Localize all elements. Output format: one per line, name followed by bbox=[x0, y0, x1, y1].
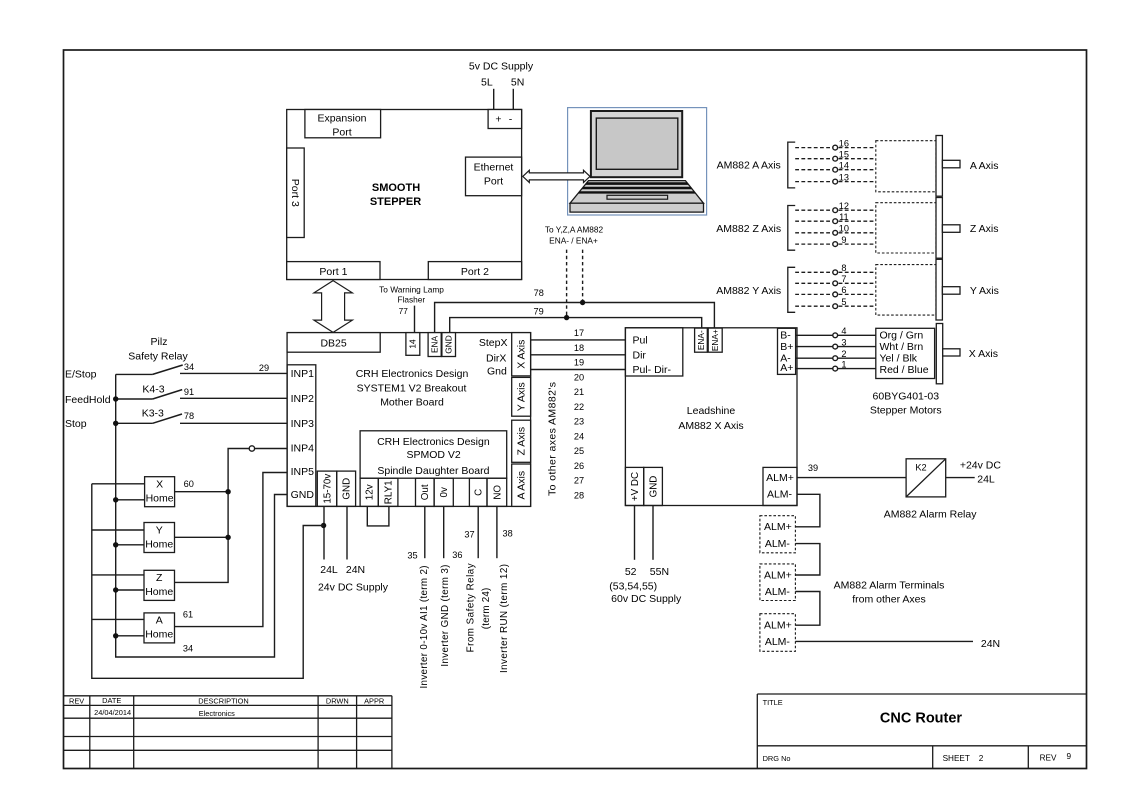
wire block1 to block2 bbox=[795, 544, 820, 575]
node feedhold bbox=[113, 396, 118, 401]
svg-text:ENA: ENA bbox=[430, 336, 440, 354]
Y home switch bbox=[144, 523, 175, 553]
svg-text:K3-3: K3-3 bbox=[142, 407, 164, 419]
svg-text:A Axis: A Axis bbox=[970, 160, 999, 172]
svg-text:NO: NO bbox=[492, 485, 503, 500]
svg-text:+V DC: +V DC bbox=[630, 472, 641, 501]
pul dir terminal block bbox=[625, 328, 682, 376]
INP4 NC contact circle bbox=[249, 446, 254, 451]
svg-text:ALM+: ALM+ bbox=[766, 472, 794, 484]
X axis port bbox=[512, 333, 531, 376]
wire 36 0v bbox=[443, 506, 445, 558]
X motor wire colour box bbox=[876, 328, 935, 378]
svg-text:Port: Port bbox=[332, 126, 351, 138]
StepX DirX Gnd labels bbox=[479, 337, 508, 378]
svg-text:14: 14 bbox=[408, 339, 418, 349]
svg-text:61: 61 bbox=[183, 609, 193, 619]
svg-text:37: 37 bbox=[464, 529, 474, 539]
svg-text:ALM-: ALM- bbox=[765, 586, 791, 598]
svg-text:K2: K2 bbox=[915, 463, 926, 473]
svg-text:B-: B- bbox=[780, 330, 791, 342]
port 2 bbox=[428, 262, 521, 280]
svg-text:Inverter 0-10v AI1 (term 2): Inverter 0-10v AI1 (term 2) bbox=[419, 566, 430, 689]
wire 60 X home out bbox=[175, 491, 229, 493]
ethernet port bbox=[466, 157, 522, 196]
svg-text:Mother Board: Mother Board bbox=[380, 397, 444, 409]
wire gnd 19 bbox=[531, 369, 626, 371]
svg-text:X Axis: X Axis bbox=[969, 348, 998, 360]
svg-text:DATE: DATE bbox=[102, 696, 121, 705]
X axis phase terminal block bbox=[778, 328, 796, 374]
wire ALM X to block1 bbox=[795, 494, 820, 527]
wire 5L bbox=[493, 89, 495, 110]
svg-text:6: 6 bbox=[841, 285, 846, 295]
svg-text:Stepper Motors: Stepper Motors bbox=[870, 404, 942, 416]
wire 37 C bbox=[477, 506, 479, 558]
switch feedhold bbox=[116, 390, 287, 399]
alarm terminal block 2 bbox=[760, 564, 796, 601]
svg-text:39: 39 bbox=[808, 463, 818, 473]
svg-text:26: 26 bbox=[574, 461, 584, 471]
wire block2 to block3 bbox=[795, 592, 820, 626]
A home switch bbox=[144, 613, 175, 643]
leadshine AM882 X axis driver U5 bbox=[625, 328, 797, 506]
svg-text:REV: REV bbox=[69, 696, 84, 705]
svg-text:STEPPER: STEPPER bbox=[370, 196, 421, 208]
wire Z home out to INP4 bbox=[175, 449, 250, 583]
smooth stepper board U2 bbox=[287, 110, 522, 280]
terminal ENA- bbox=[695, 328, 708, 352]
bracket Y axis bbox=[788, 267, 795, 312]
svg-text:SMOOTH: SMOOTH bbox=[372, 182, 420, 194]
svg-text:To Y,Z,A AM882: To Y,Z,A AM882 bbox=[545, 225, 604, 235]
X home switch bbox=[145, 477, 175, 507]
svg-text:24v DC Supply: 24v DC Supply bbox=[318, 582, 389, 594]
wire rly loop bbox=[367, 506, 389, 526]
24v supply labels bbox=[318, 564, 389, 594]
svg-text:Y: Y bbox=[156, 524, 163, 536]
svg-text:Out: Out bbox=[420, 484, 431, 500]
svg-text:GND: GND bbox=[342, 478, 353, 500]
svg-text:2: 2 bbox=[841, 349, 846, 359]
svg-text:INP3: INP3 bbox=[291, 418, 315, 430]
bracket A axis bbox=[788, 142, 795, 188]
svg-text:ALM+: ALM+ bbox=[764, 569, 792, 581]
svg-text:4: 4 bbox=[841, 326, 846, 336]
svg-text:INP5: INP5 bbox=[291, 466, 315, 478]
svg-text:3: 3 bbox=[841, 337, 846, 347]
svg-text:5L: 5L bbox=[481, 77, 493, 89]
svg-text:X Axis: X Axis bbox=[516, 340, 528, 369]
spindle daughter board U4 bbox=[360, 431, 507, 478]
dashed ENA+ line bbox=[582, 250, 584, 303]
svg-text:C: C bbox=[474, 489, 485, 496]
svg-text:Gnd: Gnd bbox=[487, 365, 507, 377]
svg-text:10: 10 bbox=[839, 224, 849, 234]
svg-text:91: 91 bbox=[184, 387, 194, 397]
svg-text:24/04/2014: 24/04/2014 bbox=[94, 708, 131, 717]
svg-text:AM882 Alarm Relay: AM882 Alarm Relay bbox=[884, 509, 978, 521]
wire GND 55N bbox=[652, 506, 654, 560]
terminal NO bbox=[487, 478, 507, 506]
A axis port bbox=[512, 464, 531, 506]
bracket Z axis bbox=[788, 206, 795, 251]
+24v DC labels bbox=[960, 459, 1002, 485]
wire 39 to K2 bbox=[797, 477, 906, 479]
svg-text:13: 13 bbox=[839, 172, 849, 182]
svg-text:29: 29 bbox=[259, 363, 269, 373]
svg-text:1: 1 bbox=[841, 359, 846, 369]
svg-text:-: - bbox=[509, 114, 513, 126]
terminal C bbox=[469, 478, 487, 506]
svg-text:15-70v: 15-70v bbox=[322, 474, 333, 504]
svg-text:0v: 0v bbox=[439, 487, 450, 497]
wire 5N bbox=[512, 89, 514, 110]
wire 77 bbox=[414, 306, 416, 333]
svg-text:24: 24 bbox=[574, 431, 584, 441]
svg-text:CRH Electronics Design: CRH Electronics Design bbox=[377, 436, 490, 448]
svg-text:Port 2: Port 2 bbox=[461, 266, 489, 278]
svg-text:DESCRIPTION: DESCRIPTION bbox=[198, 696, 249, 705]
svg-text:AM882 X Axis: AM882 X Axis bbox=[678, 420, 743, 432]
svg-text:55N: 55N bbox=[650, 566, 669, 578]
svg-text:Red / Blue: Red / Blue bbox=[880, 364, 929, 376]
svg-text:GND: GND bbox=[291, 489, 315, 501]
branch to A home top bbox=[92, 618, 144, 620]
terminal 0v bbox=[434, 478, 453, 506]
svg-text:78: 78 bbox=[534, 288, 544, 298]
revision table bbox=[64, 696, 392, 769]
svg-text:5: 5 bbox=[841, 297, 846, 307]
terminal RLY1 bbox=[378, 478, 398, 506]
terminal 14 bbox=[406, 333, 420, 356]
svg-text:Pul: Pul bbox=[633, 334, 648, 346]
svg-text:Home: Home bbox=[145, 586, 173, 598]
stepper motors label bbox=[870, 390, 942, 416]
svg-text:24N: 24N bbox=[981, 638, 1000, 650]
5v DC supply labels bbox=[469, 61, 534, 89]
svg-text:60v DC Supply: 60v DC Supply bbox=[611, 593, 682, 605]
terminal GND power bbox=[337, 471, 356, 506]
svg-text:+: + bbox=[495, 114, 501, 126]
wire 78 bbox=[435, 303, 715, 333]
svg-text:12: 12 bbox=[839, 201, 849, 211]
DB25 connector bbox=[287, 333, 380, 353]
svg-text:From Safety Relay: From Safety Relay bbox=[466, 563, 477, 652]
svg-text:A: A bbox=[156, 615, 163, 627]
stepper motor X bbox=[936, 324, 960, 384]
branch to X home bottom bbox=[116, 499, 145, 501]
terminal 12v bbox=[360, 478, 378, 506]
svg-text:A+: A+ bbox=[780, 362, 793, 374]
svg-text:Z Axis: Z Axis bbox=[970, 223, 999, 235]
svg-text:GND: GND bbox=[648, 476, 659, 498]
svg-text:Home: Home bbox=[146, 493, 174, 505]
svg-text:60: 60 bbox=[184, 479, 194, 489]
stepper motor Y bbox=[876, 259, 960, 320]
svg-text:34: 34 bbox=[184, 362, 194, 372]
branch to A home bottom bbox=[116, 635, 144, 637]
wire 61 A home to INP5 bbox=[175, 473, 288, 627]
svg-text:2: 2 bbox=[979, 754, 984, 763]
svg-text:35: 35 bbox=[407, 551, 417, 561]
branch to Z home bottom bbox=[116, 589, 144, 591]
wire +VDC 52 bbox=[634, 506, 636, 560]
wire dirx 18 bbox=[531, 354, 626, 356]
left bus wire to 24L junction bbox=[92, 484, 324, 679]
svg-text:24N: 24N bbox=[346, 564, 365, 576]
terminal GND bbox=[442, 333, 456, 357]
svg-text:K4-3: K4-3 bbox=[142, 383, 164, 395]
svg-text:REV: REV bbox=[1040, 753, 1057, 762]
terminal Out bbox=[416, 478, 435, 506]
alarm terminal block 3 bbox=[760, 614, 796, 652]
wire 35 out bbox=[424, 506, 426, 558]
stepper motor Z bbox=[876, 198, 960, 259]
svg-text:CRH Electronics Design: CRH Electronics Design bbox=[356, 368, 469, 380]
svg-text:RLY1: RLY1 bbox=[384, 480, 395, 504]
svg-text:DB25: DB25 bbox=[320, 337, 346, 349]
node on wire 78 bbox=[580, 300, 585, 305]
wire 38 NO bbox=[496, 506, 498, 558]
svg-text:from other Axes: from other Axes bbox=[852, 593, 926, 605]
svg-text:38: 38 bbox=[502, 529, 512, 539]
svg-text:AM882 Alarm Terminals: AM882 Alarm Terminals bbox=[834, 579, 945, 591]
svg-text:Safety Relay: Safety Relay bbox=[128, 350, 188, 362]
svg-text:(term 24): (term 24) bbox=[481, 588, 492, 630]
svg-text:A Axis: A Axis bbox=[516, 471, 528, 500]
svg-text:DRG No: DRG No bbox=[763, 754, 791, 763]
branch to Y home top bbox=[92, 529, 144, 531]
terminal 15-70v bbox=[317, 471, 336, 506]
svg-text:15: 15 bbox=[839, 150, 849, 160]
svg-text:22: 22 bbox=[574, 402, 584, 412]
svg-text:24L: 24L bbox=[977, 474, 995, 486]
Z axis pin wires 12-9 bbox=[795, 201, 876, 247]
svg-text:Z Axis: Z Axis bbox=[516, 427, 528, 456]
svg-text:ALM+: ALM+ bbox=[764, 620, 792, 632]
svg-text:ENA+: ENA+ bbox=[710, 329, 720, 351]
terminal ENA+ bbox=[708, 328, 722, 352]
pilz safety relay label bbox=[128, 336, 188, 362]
terminal +VDC bbox=[625, 467, 643, 505]
Y axis port bbox=[512, 377, 531, 416]
svg-text:17: 17 bbox=[574, 328, 584, 338]
svg-text:ENA-: ENA- bbox=[696, 330, 706, 350]
svg-text:25: 25 bbox=[574, 446, 584, 456]
svg-text:Pul- Dir-: Pul- Dir- bbox=[633, 364, 672, 376]
svg-text:Z: Z bbox=[156, 572, 163, 584]
wire into INP4 bbox=[255, 448, 287, 450]
svg-text:Org / Grn: Org / Grn bbox=[880, 330, 924, 342]
to warning lamp flasher label bbox=[379, 285, 444, 317]
svg-text:19: 19 bbox=[574, 358, 584, 368]
svg-text:GND: GND bbox=[444, 335, 454, 353]
node stop bbox=[113, 421, 118, 426]
svg-text:ALM-: ALM- bbox=[765, 538, 791, 550]
svg-text:Port 3: Port 3 bbox=[289, 179, 301, 207]
svg-text:77: 77 bbox=[399, 306, 409, 316]
svg-text:Spindle Daughter Board: Spindle Daughter Board bbox=[377, 465, 489, 477]
node Y home junction bbox=[225, 535, 230, 540]
breakout mother board U3 bbox=[287, 333, 530, 507]
switch estop bbox=[116, 365, 287, 374]
wire K2 to 24L bbox=[946, 477, 975, 479]
svg-text:INP4: INP4 bbox=[291, 443, 315, 455]
wire stepx 17 bbox=[531, 339, 626, 341]
double arrow ethernet to laptop bbox=[523, 170, 590, 182]
terminal GND 60v bbox=[644, 467, 663, 505]
to YZA AM882 ENA label bbox=[545, 225, 604, 246]
pin numbers 17-28 bbox=[574, 328, 584, 500]
Y axis pin wires 8-5 bbox=[795, 263, 876, 309]
wire Y home out bbox=[175, 536, 229, 538]
port 1 bbox=[287, 262, 380, 280]
INP terminal strip bbox=[287, 365, 316, 507]
svg-text:B+: B+ bbox=[780, 341, 793, 353]
alarm terminal block 1 bbox=[760, 516, 796, 553]
wire number labels bbox=[407, 529, 512, 561]
svg-text:78: 78 bbox=[184, 411, 194, 421]
Z axis port bbox=[512, 420, 531, 462]
60v supply labels bbox=[609, 566, 682, 605]
node on wire 79 bbox=[564, 315, 569, 320]
svg-text:CNC Router: CNC Router bbox=[880, 711, 963, 727]
svg-text:79: 79 bbox=[533, 306, 543, 316]
svg-text:34: 34 bbox=[183, 643, 193, 653]
svg-text:Electronics: Electronics bbox=[199, 709, 235, 718]
svg-text:11: 11 bbox=[839, 212, 849, 222]
svg-text:Stop: Stop bbox=[65, 418, 87, 430]
svg-text:StepX: StepX bbox=[479, 337, 508, 349]
svg-text:INP2: INP2 bbox=[291, 393, 315, 405]
svg-text:60BYG401-03: 60BYG401-03 bbox=[873, 390, 940, 402]
svg-text:Leadshine: Leadshine bbox=[687, 405, 736, 417]
svg-text:5N: 5N bbox=[511, 77, 524, 89]
svg-text:Wht / Brn: Wht / Brn bbox=[880, 341, 924, 353]
svg-text:Yel / Blk: Yel / Blk bbox=[880, 353, 918, 365]
wire block3 to 24N bbox=[795, 640, 973, 642]
svg-text:Port: Port bbox=[484, 176, 503, 188]
svg-text:Inverter RUN (term 12): Inverter RUN (term 12) bbox=[499, 564, 510, 673]
svg-text:AM882 Z Axis: AM882 Z Axis bbox=[716, 223, 781, 235]
svg-text:ENA- / ENA+: ENA- / ENA+ bbox=[549, 236, 598, 246]
svg-text:Y Axis: Y Axis bbox=[516, 382, 528, 411]
svg-text:INP1: INP1 bbox=[291, 368, 315, 380]
Z home switch bbox=[144, 570, 175, 600]
svg-text:7: 7 bbox=[841, 274, 846, 284]
wire 24L bbox=[323, 506, 325, 559]
svg-text:ALM+: ALM+ bbox=[764, 521, 792, 533]
switch stop bbox=[116, 414, 287, 423]
svg-text:27: 27 bbox=[574, 476, 584, 486]
svg-text:Port 1: Port 1 bbox=[319, 266, 347, 278]
svg-text:X: X bbox=[156, 479, 163, 491]
svg-text:DRWN: DRWN bbox=[326, 696, 349, 705]
node 24L junction bbox=[321, 523, 326, 528]
svg-text:36: 36 bbox=[452, 550, 462, 560]
svg-text:FeedHold: FeedHold bbox=[65, 394, 111, 406]
svg-text:ALM-: ALM- bbox=[765, 636, 791, 648]
svg-text:23: 23 bbox=[574, 417, 584, 427]
svg-text:Pilz: Pilz bbox=[151, 336, 168, 348]
svg-text:AM882 Y Axis: AM882 Y Axis bbox=[716, 285, 781, 297]
svg-text:18: 18 bbox=[574, 343, 584, 353]
svg-text:To Warning Lamp: To Warning Lamp bbox=[379, 285, 444, 295]
wire 79 bbox=[450, 318, 702, 333]
svg-text:(53,54,55): (53,54,55) bbox=[609, 580, 657, 592]
terminal ALM X bbox=[763, 467, 797, 505]
branch to Y home bottom bbox=[116, 544, 144, 546]
branch to X home top bbox=[92, 483, 145, 485]
alarm terminals label bbox=[834, 579, 945, 605]
svg-text:AM882 A Axis: AM882 A Axis bbox=[717, 160, 781, 172]
svg-text:SPMOD V2: SPMOD V2 bbox=[406, 449, 460, 461]
dashed ENA- line bbox=[566, 250, 568, 318]
svg-text:APPR: APPR bbox=[364, 696, 384, 705]
X axis motor wires 4-1 bbox=[796, 326, 876, 371]
terminal ENA bbox=[428, 333, 441, 357]
svg-text:ALM-: ALM- bbox=[767, 489, 793, 501]
svg-text:Home: Home bbox=[145, 538, 173, 550]
svg-text:Inverter GND (term 3): Inverter GND (term 3) bbox=[440, 565, 451, 667]
svg-text:20: 20 bbox=[574, 372, 584, 382]
svg-text:To other axes AM882's: To other axes AM882's bbox=[546, 382, 558, 496]
expansion port bbox=[305, 110, 381, 139]
svg-text:+24v DC: +24v DC bbox=[960, 459, 1002, 471]
svg-text:Flasher: Flasher bbox=[397, 294, 425, 304]
svg-text:Dir: Dir bbox=[633, 349, 647, 361]
double arrow port1 to DB25 bbox=[314, 281, 353, 333]
svg-text:5v DC Supply: 5v DC Supply bbox=[469, 61, 534, 73]
svg-text:SYSTEM1 V2 Breakout: SYSTEM1 V2 Breakout bbox=[357, 382, 467, 394]
svg-text:8: 8 bbox=[841, 263, 846, 273]
stepper motor A bbox=[876, 136, 960, 197]
branch to Z home top bbox=[92, 574, 144, 576]
svg-text:TITLE: TITLE bbox=[763, 698, 783, 707]
svg-text:SHEET: SHEET bbox=[943, 754, 970, 763]
wire 24N bbox=[346, 506, 348, 559]
svg-text:Ethernet: Ethernet bbox=[474, 161, 514, 173]
svg-text:9: 9 bbox=[1067, 752, 1072, 761]
svg-text:DirX: DirX bbox=[486, 352, 506, 364]
node X home junction bbox=[225, 489, 230, 494]
svg-text:24L: 24L bbox=[320, 564, 338, 576]
5v terminal + - bbox=[488, 110, 521, 129]
laptop PC bbox=[568, 108, 707, 215]
svg-text:Expansion: Expansion bbox=[317, 112, 366, 124]
estop bus wire to GND bbox=[116, 374, 287, 657]
A axis pin wires 16-13 bbox=[795, 138, 876, 184]
svg-text:12v: 12v bbox=[365, 484, 376, 500]
title block bbox=[757, 694, 1086, 769]
svg-text:16: 16 bbox=[839, 138, 849, 148]
relay K2 bbox=[906, 459, 946, 497]
svg-text:E/Stop: E/Stop bbox=[65, 368, 97, 380]
svg-text:9: 9 bbox=[841, 235, 846, 245]
svg-text:Home: Home bbox=[145, 629, 173, 641]
svg-text:21: 21 bbox=[574, 387, 584, 397]
port 3 bbox=[287, 148, 305, 238]
svg-text:14: 14 bbox=[839, 161, 849, 171]
svg-text:Y Axis: Y Axis bbox=[970, 285, 999, 297]
svg-text:52: 52 bbox=[625, 566, 637, 578]
svg-text:28: 28 bbox=[574, 490, 584, 500]
